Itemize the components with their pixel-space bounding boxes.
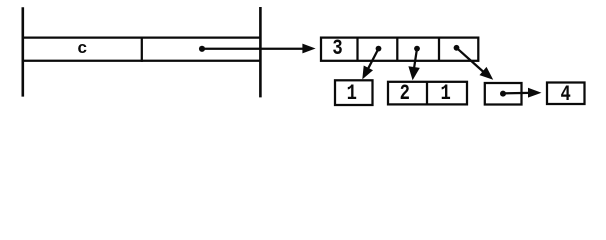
box value 1 (335, 80, 373, 105)
tail node box (485, 83, 522, 105)
pointer dot cell 2 (376, 46, 382, 52)
svg-text:c: c (77, 40, 87, 59)
wire: arrow cell3 to box 2 (414, 49, 417, 69)
box values 2 and 1 (388, 82, 467, 105)
arrowhead onto tail node (480, 67, 494, 80)
svg-text:1: 1 (440, 81, 450, 106)
svg-text:3: 3 (332, 36, 342, 61)
left frame bar (21, 7, 24, 96)
arrowhead into box 4 (528, 88, 542, 98)
wire: arrow tail node to box 4 (503, 92, 529, 95)
arrowhead onto box 2 (408, 66, 419, 80)
box value 4 (547, 83, 585, 105)
list head node (4 cells) (321, 38, 478, 61)
pointer dot in variable cell (199, 46, 205, 52)
right frame bar (259, 7, 262, 97)
svg-text:1: 1 (347, 81, 357, 106)
pointer dot cell 3 (414, 46, 420, 52)
svg-text:2: 2 (400, 81, 410, 106)
arrowhead into node 3 (302, 44, 315, 54)
arrowhead onto box 1 (362, 66, 373, 80)
pointer dot cell 4 (454, 45, 460, 51)
wire: pointer arrow shaft to list (202, 48, 303, 50)
variable row box (23, 37, 261, 62)
wire: arrow cell2 to box 1 (367, 49, 378, 71)
wire: arrow cell4 to tail node (457, 48, 485, 73)
svg-text:4: 4 (560, 82, 570, 107)
pointer dot tail node (500, 91, 506, 97)
